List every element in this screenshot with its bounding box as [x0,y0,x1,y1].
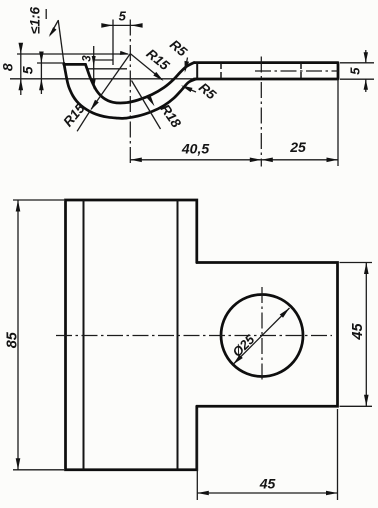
radius R18 leader [132,81,161,130]
svg-text:8: 8 [0,63,16,71]
wire: extension x=338 below strip [337,79,339,166]
dimension 5 left [40,53,42,95]
dimension 85 left [13,199,64,201]
strip centerline y=71 [255,70,338,72]
radius R15 leader center to inner arc [130,54,162,80]
horizontal centerline [56,335,332,337]
inner curve of hook [86,63,195,103]
bend tangent line [196,63,198,79]
wire: short extension line y=68.8 [87,68,127,70]
radius R5 upper leader [185,58,187,71]
dimension 25 [261,159,338,161]
svg-text:3: 3 [82,55,94,62]
svg-text:45: 45 [259,476,276,492]
dimension 8 left [20,43,22,95]
plan view T-contour main plate [66,200,197,470]
radius R15 lower leader center to outer arc [91,54,130,110]
svg-text:5: 5 [20,66,36,74]
diameter dimension D25 [233,308,290,365]
dimension 3 [93,46,95,86]
centerline x=261.3 hole axis projected [260,57,262,167]
svg-text:Ø25: Ø25 [229,331,258,360]
plan view tab outline [197,263,338,407]
svg-text:R15: R15 [60,100,88,129]
outer curve of hook with tapered left wall [64,64,196,119]
strip outline flat right portion [194,63,338,79]
centerline x=130.3 scroll axis [129,20,131,167]
hidden hole edge lines in strip [220,63,222,79]
dimension 5 top [102,24,142,26]
wire: extension line y=63 for dim 5 left [37,62,65,64]
dimension 5 right strip thickness [340,62,374,64]
dimension 45 bottom [196,409,198,500]
svg-text:5: 5 [348,67,363,75]
svg-text:R5: R5 [167,37,190,60]
svg-text:25: 25 [289,139,306,155]
dimension 45 right tab [340,262,373,264]
bend line left [83,200,85,470]
svg-text:45: 45 [350,323,366,341]
vertical centerline of hole [261,287,263,383]
svg-text:85: 85 [5,331,21,348]
tip top edge [64,63,86,66]
radius R5 lower leader [183,87,196,92]
dimension 40,5 [130,159,261,161]
wire: extension x=113 [112,20,114,66]
svg-text:R15: R15 [143,46,172,74]
wire: extension line y=54 for dim 8 [17,53,128,55]
svg-text:R5: R5 [196,80,219,103]
leader for taper (tangent to tapered wall) [58,20,64,64]
svg-text:40,5: 40,5 [181,141,209,157]
wire: extension line y=60 short [95,59,113,61]
svg-text:5: 5 [119,9,127,24]
wire: extension line y=78.8 strip bottom extended left [10,78,196,80]
bend line right [177,200,179,470]
svg-text:≤1:6: ≤1:6 [28,7,43,34]
hole circle D25 [221,295,303,377]
